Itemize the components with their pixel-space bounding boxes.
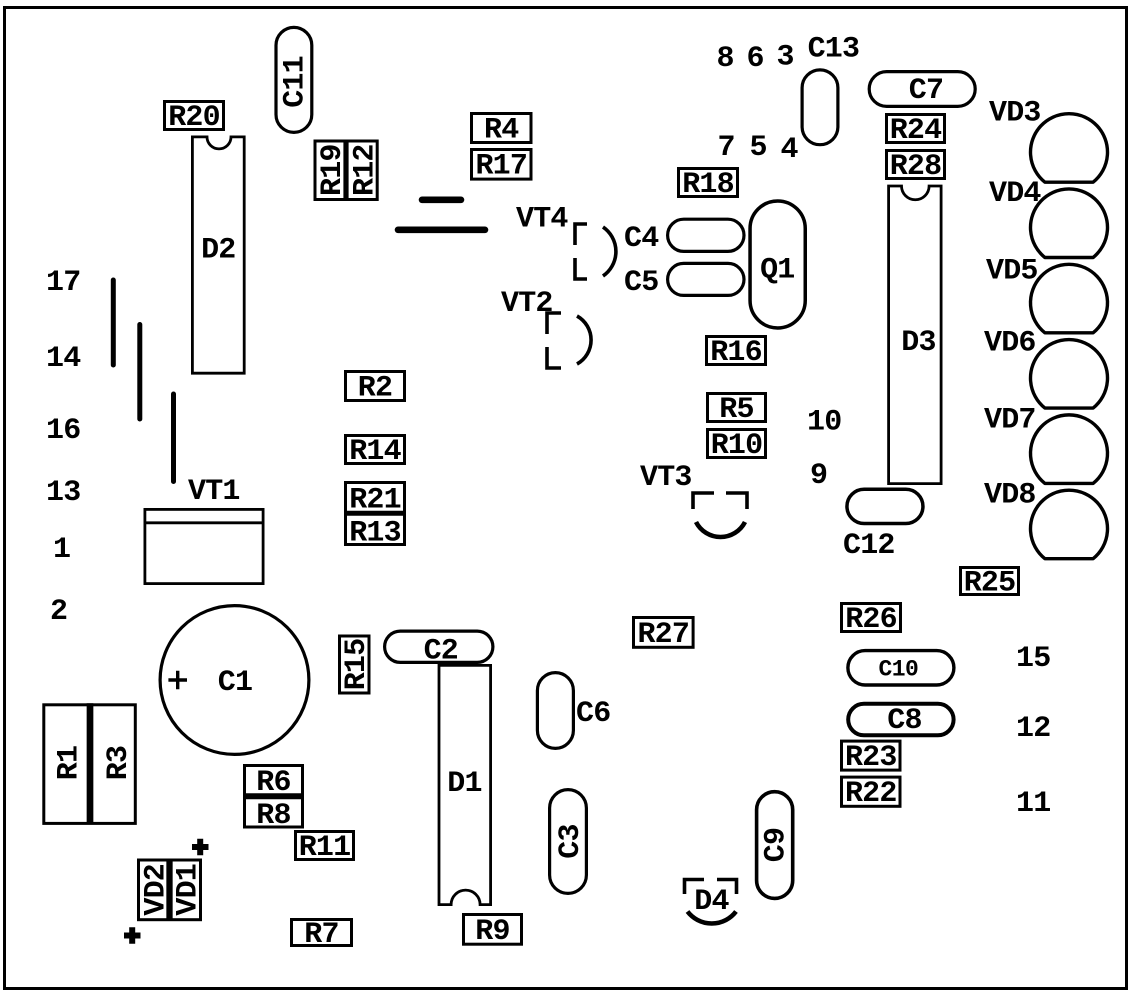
svg-text:C1: C1 — [218, 666, 252, 700]
svg-text:R8: R8 — [256, 799, 290, 833]
svg-text:VD2: VD2 — [139, 864, 173, 916]
svg-text:VD5: VD5 — [986, 255, 1038, 289]
resistor R10 — [708, 430, 766, 458]
IC D3 body with pin-1 notch — [889, 186, 942, 484]
svg-text:VD3: VD3 — [989, 96, 1041, 130]
diode D1 body with notch — [439, 665, 491, 904]
capacitor C11 — [276, 27, 312, 132]
resistor R9 — [464, 915, 522, 945]
svg-text:11: 11 — [1016, 787, 1050, 821]
resistor R19 — [315, 141, 377, 200]
svg-text:1: 1 — [53, 533, 70, 567]
svg-text:2: 2 — [50, 595, 67, 629]
resistor R7 — [292, 920, 352, 946]
capacitor C9 — [757, 792, 793, 899]
transistor Q1 — [750, 201, 805, 328]
polarity mark plus bottom — [124, 927, 141, 943]
capacitor C12 — [847, 489, 923, 523]
svg-text:R21: R21 — [349, 483, 401, 517]
svg-text:R23: R23 — [845, 741, 897, 775]
svg-text:C9: C9 — [759, 828, 793, 862]
svg-text:VT1: VT1 — [188, 475, 240, 509]
polarity mark plus top — [192, 839, 209, 855]
svg-text:C13: C13 — [808, 33, 860, 67]
diode D4 outline — [685, 880, 737, 924]
svg-text:R15: R15 — [340, 639, 374, 691]
diode VD2 — [139, 860, 201, 920]
svg-text:C4: C4 — [624, 222, 659, 256]
svg-text:D2: D2 — [201, 234, 235, 268]
resistor R16 — [707, 337, 766, 365]
svg-text:8: 8 — [717, 42, 734, 76]
svg-text:C11: C11 — [278, 56, 312, 108]
LED VD6 — [1031, 340, 1108, 409]
svg-text:R28: R28 — [890, 150, 942, 184]
svg-text:15: 15 — [1016, 642, 1050, 676]
capacitor C6 — [537, 673, 573, 749]
resistor R15 — [340, 636, 370, 693]
wire stub C — [171, 394, 176, 482]
resistor R1 — [44, 705, 136, 824]
svg-text:12: 12 — [1016, 712, 1050, 746]
resistor R23 — [842, 741, 901, 770]
svg-text:VD6: VD6 — [984, 327, 1036, 361]
svg-text:VT3: VT3 — [640, 461, 692, 495]
capacitor C7 — [869, 72, 975, 107]
capacitor C5 — [668, 263, 744, 295]
resistor R22 — [842, 777, 901, 806]
resistor R4 — [472, 114, 532, 143]
resistor R28 — [887, 151, 945, 179]
wire stub A — [111, 280, 116, 365]
svg-text:10: 10 — [807, 406, 841, 440]
svg-text:Q1: Q1 — [760, 254, 794, 288]
svg-text:R20: R20 — [168, 101, 220, 135]
svg-text:C5: C5 — [624, 266, 658, 300]
svg-text:4: 4 — [781, 133, 799, 167]
svg-text:R22: R22 — [845, 777, 897, 811]
svg-text:R13: R13 — [349, 516, 401, 550]
svg-text:VT2: VT2 — [501, 287, 553, 321]
capacitor C13 — [802, 70, 838, 145]
svg-text:17: 17 — [46, 266, 80, 300]
resistor R2 — [346, 372, 405, 401]
resistor R6 — [245, 766, 303, 828]
svg-text:R5: R5 — [719, 393, 753, 427]
svg-text:D4: D4 — [694, 885, 729, 919]
svg-text:R12: R12 — [348, 144, 382, 196]
resistor R14 — [346, 436, 405, 464]
capacitor C2 — [385, 631, 493, 662]
transistor VT2 outline — [547, 313, 591, 368]
svg-text:VD4: VD4 — [989, 177, 1041, 211]
svg-text:5: 5 — [750, 131, 767, 165]
LED VD3 — [1031, 114, 1108, 183]
svg-text:R25: R25 — [964, 566, 1016, 600]
svg-text:R16: R16 — [710, 336, 762, 370]
svg-text:R17: R17 — [475, 150, 527, 184]
svg-text:R14: R14 — [349, 435, 401, 469]
resistor R26 — [842, 604, 901, 632]
LED VD8 — [1031, 490, 1108, 559]
svg-text:C8: C8 — [887, 704, 921, 738]
svg-text:R3: R3 — [102, 746, 136, 780]
svg-text:C7: C7 — [909, 74, 943, 108]
resistor R11 — [296, 832, 354, 860]
resistor R18 — [679, 169, 738, 197]
svg-text:R2: R2 — [358, 371, 392, 405]
svg-text:C3: C3 — [554, 824, 588, 858]
transistor VT1 body — [145, 509, 263, 583]
resistor R25 — [961, 568, 1019, 595]
svg-text:R9: R9 — [475, 915, 509, 949]
svg-text:R27: R27 — [637, 618, 689, 652]
resistor R21 — [346, 483, 405, 545]
svg-text:R24: R24 — [890, 114, 942, 148]
svg-text:R6: R6 — [256, 766, 290, 800]
transistor VT4 outline — [575, 224, 616, 279]
svg-text:C2: C2 — [424, 635, 458, 669]
svg-text:R19: R19 — [316, 144, 350, 196]
svg-text:VT4: VT4 — [516, 203, 568, 237]
svg-text:R18: R18 — [682, 168, 734, 202]
capacitor C8 — [848, 704, 953, 736]
resistor R27 — [634, 618, 694, 648]
svg-text:14: 14 — [46, 342, 81, 376]
svg-text:C6: C6 — [576, 697, 610, 731]
IC D2 body with pin-1 notch — [192, 137, 244, 373]
resistor R20 — [165, 102, 224, 130]
svg-text:3: 3 — [777, 41, 794, 75]
LED VD5 — [1031, 264, 1108, 333]
LED VD7 — [1031, 415, 1108, 484]
wire bar short — [422, 197, 461, 204]
capacitor C3 — [550, 790, 587, 894]
wire stub B — [137, 325, 142, 420]
resistor R17 — [472, 150, 532, 180]
svg-text:D3: D3 — [901, 326, 935, 360]
capacitor C1 — [160, 606, 309, 755]
svg-text:R7: R7 — [304, 918, 338, 952]
svg-text:R11: R11 — [299, 831, 351, 865]
transistor VT3 outline — [693, 493, 747, 537]
svg-text:VD1: VD1 — [172, 864, 206, 916]
capacitor C10 — [848, 651, 954, 685]
svg-text:6: 6 — [747, 42, 764, 76]
LED VD4 — [1031, 189, 1108, 258]
svg-text:16: 16 — [46, 414, 80, 448]
resistor R24 — [887, 115, 945, 143]
wire bar long — [398, 227, 485, 234]
svg-text:9: 9 — [810, 459, 827, 493]
svg-text:13: 13 — [46, 476, 80, 510]
svg-text:R4: R4 — [484, 113, 519, 147]
svg-text:D1: D1 — [447, 767, 481, 801]
svg-text:C12: C12 — [843, 529, 895, 563]
svg-text:R1: R1 — [52, 746, 86, 780]
svg-text:R10: R10 — [711, 429, 763, 463]
svg-text:VD7: VD7 — [984, 404, 1036, 438]
svg-text:C10: C10 — [878, 657, 918, 683]
svg-text:R26: R26 — [845, 603, 897, 637]
resistor R5 — [708, 394, 766, 422]
capacitor C4 — [668, 219, 744, 251]
svg-text:7: 7 — [718, 131, 735, 165]
svg-text:VD8: VD8 — [984, 478, 1036, 512]
